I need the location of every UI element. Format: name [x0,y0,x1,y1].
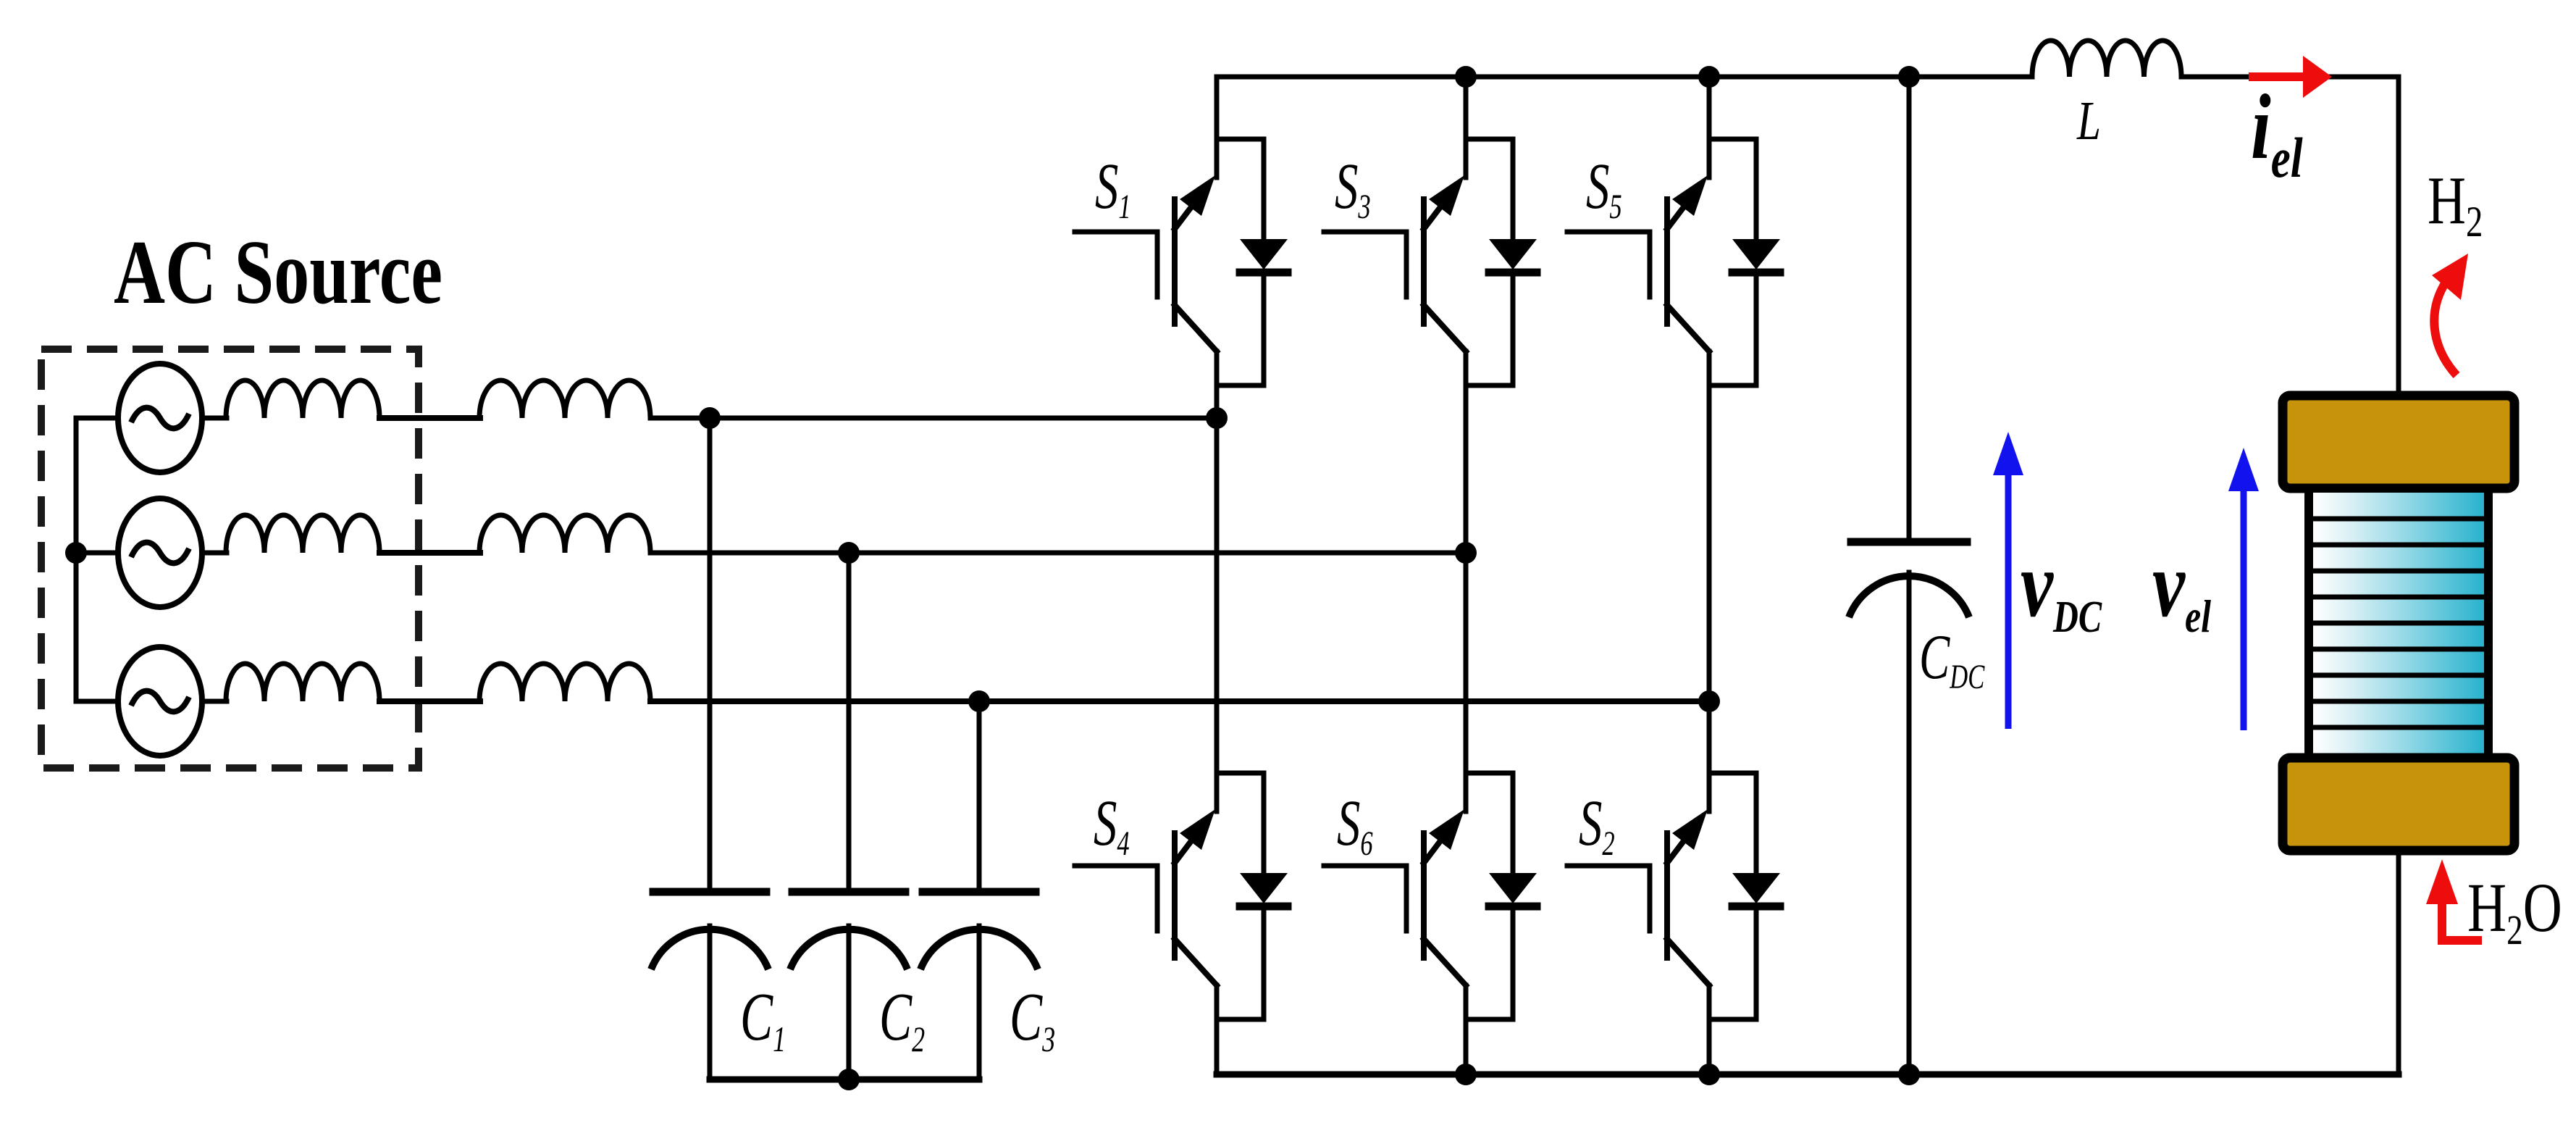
wire: phase C to bridge leg C [650,698,1709,704]
diode D4 (anti-parallel with S4) [1240,773,1288,1019]
transistor S6 (IGBT: gate lead, bar, collector arrow, emitter) [1324,809,1466,985]
wire: S6 collector/emitter stubs to diode branch [1466,773,1513,1019]
wire: leg C vertical (S2 emitter to bottom rail) [1707,985,1712,1074]
node: phase A / leg A junction [1206,407,1228,429]
arrow: vel voltage reference (blue) [2228,448,2259,730]
label C2 [879,979,925,1059]
inductor: phase C line filter inductance [479,664,650,701]
wire: leg C vertical (S5 emitter through phase C node to S2) [1707,351,1712,811]
diode D5 (anti-parallel with S5) [1732,139,1780,385]
AC voltage source Va (phase A) [118,364,202,472]
wire: top DC rail (inductor L to right corner) and down to electrolyzer [2181,77,2399,397]
node: top rail / leg B [1455,66,1477,88]
wire: tap down to capacitor C3 [977,701,982,889]
wire: neutral bus to source Vb [76,551,118,556]
node: phase tap junction for C1 [699,407,721,429]
wire: capacitor common bus [710,1077,979,1083]
diode D1 (anti-parallel with S1) [1240,139,1288,385]
wire: leg B vertical (S6 emitter to bottom rail) [1464,985,1469,1074]
electrolyzer cell stack (10 cells) [2309,488,2488,758]
arrow: iel current direction (red) [2249,56,2332,98]
label vel [2152,532,2211,642]
wire: leg B vertical (S3 emitter through phase B node to S6) [1464,351,1469,811]
wire: leg C vertical (top rail to S5) [1707,77,1712,177]
wire: neutral bus connecting three sources [74,418,79,701]
arrow: H2O inlet (red) [2426,859,2482,940]
arrow: H2 outlet (red curved) [2432,254,2468,375]
diode D2 (anti-parallel with S2) [1732,773,1780,1019]
label S2 [1579,787,1615,864]
transistor S5 (IGBT: gate lead, bar, collector arrow, emitter) [1567,175,1709,351]
label vDC [2021,532,2102,642]
label S6 [1337,787,1373,864]
wire: phase B between inductors [379,550,480,556]
wire: DC-link capacitor branch (top) [1907,77,1912,540]
label C3 [1010,979,1055,1059]
label CDC [1919,622,1985,697]
label S4 [1094,787,1130,864]
node: bottom rail / DC-link capacitor [1898,1064,1920,1085]
wire: S2 collector/emitter stubs to diode branch [1709,773,1756,1019]
wire: neutral bus to source Va [76,416,118,421]
node: top rail / leg C [1698,66,1720,88]
wire: S5 collector/emitter stubs to diode branch [1709,139,1756,385]
node: phase B / leg B junction [1455,542,1477,564]
wire: phase B to bridge leg B [650,551,1466,556]
node: phase C / leg C junction [1698,690,1720,712]
dashed box: AC source boundary [41,349,419,768]
transistor S1 (IGBT: gate lead, bar, collector arrow, emitter) [1075,175,1217,351]
label H2O [2467,869,2562,953]
node: bottom rail / leg B [1455,1064,1477,1085]
electrolyzer top electrode plate [2283,396,2514,488]
wire: S1 collector/emitter stubs to diode branch [1217,139,1264,385]
inductor: phase C source inductance [226,664,379,701]
svg-text:AC Source: AC Source [114,222,442,322]
inductor: phase B source inductance [226,515,379,553]
label S1 [1095,150,1131,227]
node: capacitor bus junction [838,1069,860,1090]
diode D3 (anti-parallel with S3) [1489,139,1537,385]
label: AC Source title [114,222,442,322]
wire: tap down to capacitor C1 [708,418,713,889]
node: phase tap junction for C2 [838,542,860,564]
inductor: phase A source inductance [226,380,379,418]
wire: leg A vertical (top rail to S1) [1214,77,1220,177]
wire: top DC rail (leg A to inductor L) [1217,75,2032,80]
inductor: phase A line filter inductance [479,380,650,418]
capacitor C3 (filter capacitor) [920,892,1038,1079]
svg-text:L: L [2076,90,2101,151]
wire: electrolyzer bottom to bottom rail [2396,851,2401,1074]
wire: phase A between inductors [379,415,480,421]
node: top rail / DC-link capacitor [1898,66,1920,88]
label S3 [1335,150,1371,227]
capacitor C1 (filter capacitor) [651,892,768,1079]
capacitor C2 (filter capacitor) [790,892,907,1079]
wire: leg B vertical (top rail to S3) [1464,77,1469,177]
wire: leg A vertical (S1 emitter through phase A node to S4) [1214,351,1220,811]
inductor L (DC smoothing) [2032,41,2181,77]
transistor S4 (IGBT: gate lead, bar, collector arrow, emitter) [1075,809,1217,985]
wire: source Va to source inductor [202,416,227,421]
transistor S2 (IGBT: gate lead, bar, collector arrow, emitter) [1567,809,1709,985]
electrolyzer bottom electrode plate [2283,758,2514,851]
wire: phase A to bridge leg A [650,416,1217,421]
node: neutral bus / phase B junction [65,542,87,564]
label H2 [2428,163,2483,246]
label L [2076,90,2101,151]
wire: neutral bus to source Vc [76,699,118,704]
capacitor CDC (DC-link) [1849,542,1969,1074]
node: bottom rail / leg C [1698,1064,1720,1085]
AC voltage source Vb (phase B) [118,498,202,607]
wire: tap down to capacitor C2 [847,553,852,889]
node: phase tap junction for C3 [968,690,990,712]
wire: source Vc to source inductor [202,699,227,704]
wire: phase C between inductors [379,698,480,704]
label C1 [740,979,786,1059]
label iel [2251,75,2303,190]
arrow: vDC voltage reference (blue) [1993,432,2023,729]
diode D6 (anti-parallel with S6) [1489,773,1537,1019]
label S5 [1586,150,1622,227]
wire: source Vb to source inductor [202,551,227,556]
wire: bottom DC rail [1217,1072,2399,1078]
wire: leg A vertical (S4 emitter to bottom rail) [1214,985,1220,1074]
wire: S4 collector/emitter stubs to diode branch [1217,773,1264,1019]
AC voltage source Vc (phase C) [118,647,202,756]
inductor: phase B line filter inductance [479,515,650,553]
transistor S3 (IGBT: gate lead, bar, collector arrow, emitter) [1324,175,1466,351]
wire: S3 collector/emitter stubs to diode branch [1466,139,1513,385]
